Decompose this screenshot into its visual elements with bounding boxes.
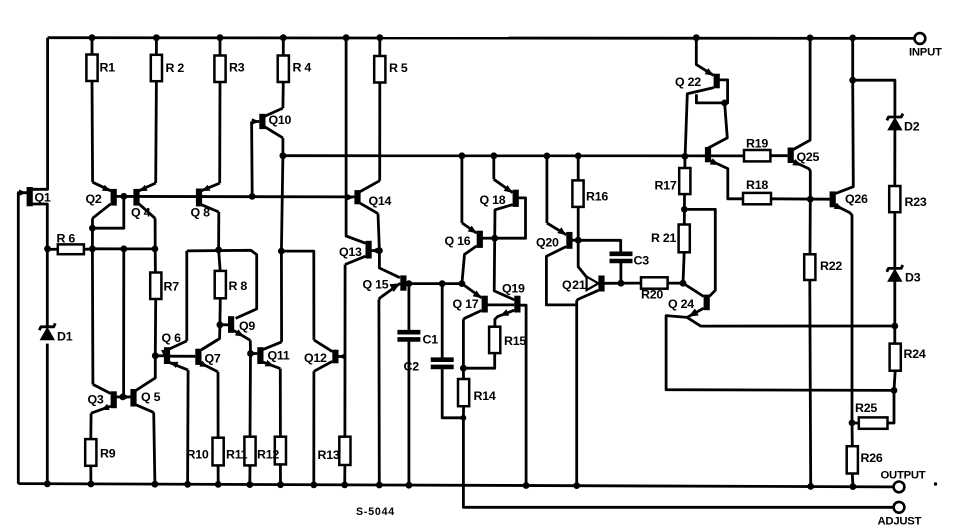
resistor R4 <box>278 56 289 83</box>
transistor Q18 <box>494 179 519 238</box>
label R17 <box>655 179 677 193</box>
svg-text:R20: R20 <box>641 288 663 302</box>
transistor Q13 <box>345 241 379 265</box>
node Q16-Q18 junction dot <box>491 235 498 242</box>
wire bias bus y249 <box>92 247 154 250</box>
svg-text:R26: R26 <box>861 451 883 465</box>
svg-text:Q 21: Q 21 <box>562 278 586 292</box>
resistor R7 <box>150 273 161 300</box>
label R1 <box>100 61 116 75</box>
resistor R18 <box>743 193 771 204</box>
wire R2 top stub <box>155 38 158 55</box>
wire R6 right stub <box>84 248 93 251</box>
svg-text:R 4: R 4 <box>293 61 312 75</box>
transistor Q12 <box>314 340 346 371</box>
wire Q6 upper lead to bus y250 <box>185 251 188 341</box>
label R19 <box>746 137 768 151</box>
wire Q4 emitter down to R7 node <box>154 218 157 249</box>
wire Q6 node to Q5 collector <box>136 356 155 391</box>
svg-text:Q 18: Q 18 <box>480 193 506 207</box>
svg-text:Q10: Q10 <box>269 113 292 127</box>
node Q13 top rail dot <box>343 34 350 41</box>
wire input column x852 <box>851 38 854 80</box>
resistor R14 <box>458 379 469 406</box>
transistor Q23 <box>705 147 743 199</box>
wire C3 top to R16 node <box>578 240 621 251</box>
label OUTPUT <box>881 470 926 482</box>
wire Q12 emitter to output rail <box>312 371 315 485</box>
label Q15 <box>363 278 389 292</box>
resistor R13 <box>339 437 350 465</box>
wire Q11 emitter to R12 <box>279 369 282 437</box>
node Q2 junction dot at y228 <box>89 225 96 232</box>
resistor R20 <box>641 277 668 288</box>
transistor Q15 <box>379 275 407 299</box>
wire D2 branch <box>853 80 895 116</box>
node bias bus dot B <box>120 245 127 252</box>
svg-text:C3: C3 <box>634 254 650 268</box>
wire D1 anode to output rail <box>46 344 49 484</box>
wire Q16 base stub <box>482 237 494 240</box>
wire mid rail y156 <box>283 154 744 157</box>
label Q5 <box>141 390 161 404</box>
wire Q3 emitter to R9 <box>89 413 92 439</box>
svg-text:R10: R10 <box>187 448 209 462</box>
label R21 <box>651 231 677 245</box>
wire R17 node to Q24 right <box>684 209 715 296</box>
label Q4 <box>131 206 151 220</box>
wire R14 top stub <box>462 368 465 379</box>
transistor Q1 <box>19 187 33 206</box>
node branch dot x281 y251 <box>278 248 285 255</box>
svg-text:R19: R19 <box>746 137 768 151</box>
label Q18 <box>480 193 506 207</box>
wire R26 to output rail <box>851 474 854 487</box>
label R18 <box>746 178 768 192</box>
capacitor C3 <box>610 254 633 261</box>
transistor Q10 <box>252 108 283 138</box>
label R11 <box>226 448 248 462</box>
label R10 <box>187 448 209 462</box>
node base rail Q10 tap dot <box>249 193 256 200</box>
wire R8 bottom to Q9 base node <box>218 298 221 325</box>
label R6 <box>57 232 76 246</box>
svg-text:Q14: Q14 <box>369 194 392 208</box>
node Q10 emitter rail dot <box>280 152 287 159</box>
wire R14 bottom stub <box>462 406 465 418</box>
node stray mark <box>934 482 937 485</box>
wire R17 top stub <box>684 156 687 168</box>
label R20 <box>641 288 663 302</box>
node R12 output rail dot <box>277 481 284 488</box>
capacitor C2 <box>431 360 454 367</box>
node R24 junction dot <box>891 387 898 394</box>
wire R6 left stub <box>47 248 58 251</box>
wire D3 to R24 <box>893 281 896 344</box>
node Q24 collector junction dot <box>680 280 687 287</box>
svg-text:R15: R15 <box>504 334 526 348</box>
label Q2 <box>86 192 102 206</box>
wire R15 bottom loop <box>463 353 494 368</box>
transistor Q26 <box>830 191 852 423</box>
wire Q6 base stub <box>155 354 164 357</box>
wire Q18 collector drop to Q19 <box>494 238 514 300</box>
label Q26 <box>845 192 868 206</box>
label Q14 <box>369 194 392 208</box>
transistor Q17 <box>462 284 488 369</box>
wire R23 to D3 <box>893 212 896 267</box>
label R5 <box>389 61 408 75</box>
wire R4 top stub <box>282 38 285 56</box>
node R13 output rail dot <box>341 482 348 489</box>
svg-text:R17: R17 <box>655 179 677 193</box>
wire R22 to output rail <box>808 280 812 486</box>
wire R20 to Q24 node <box>668 282 683 285</box>
transistor Q14 <box>347 181 380 214</box>
resistor R8 <box>215 271 226 298</box>
svg-text:Q3: Q3 <box>88 393 104 407</box>
wire Q15 base bus <box>406 282 462 285</box>
svg-text:Q20: Q20 <box>536 236 559 250</box>
svg-text:Q2: Q2 <box>86 192 102 206</box>
node Q1 gate-rail junction dot <box>44 480 51 487</box>
wire x852 to Q26 collector <box>835 80 853 193</box>
svg-text:R25: R25 <box>855 401 877 415</box>
wire base rail y196 <box>113 195 354 198</box>
svg-text:D3: D3 <box>905 271 921 285</box>
label Q11 <box>268 349 290 363</box>
wire Q14 emitter to Q13 base node <box>378 214 379 251</box>
svg-text:R 6: R 6 <box>57 232 76 246</box>
wire Q21 base bus <box>604 282 641 285</box>
resistor R25 <box>859 417 888 428</box>
node input top rail dot <box>849 35 856 42</box>
label R23 <box>905 195 927 209</box>
svg-text:R 21: R 21 <box>651 231 677 245</box>
wire Q1 drain to top rail <box>32 38 48 190</box>
wire R12 to output rail <box>279 464 282 484</box>
resistor R21 <box>679 225 690 253</box>
label Q21 <box>562 278 586 292</box>
node R1 top rail dot <box>89 34 96 41</box>
svg-text:R1: R1 <box>100 61 116 75</box>
transistor Q3 <box>91 384 117 413</box>
wire Q3 base stub <box>116 395 123 398</box>
label D1 <box>57 330 73 344</box>
svg-text:Q1: Q1 <box>35 191 51 205</box>
node C2 adjust tap dot <box>461 415 467 421</box>
transistor Q16 <box>462 223 483 284</box>
wire Q6 lower lead to output rail <box>186 370 189 484</box>
resistor R3 <box>214 56 225 83</box>
wire Q5 base stub <box>123 395 131 398</box>
node Q22 loop dot <box>721 100 728 107</box>
wire R21 bottom stub <box>683 252 684 283</box>
node bus y250 dot at R8 <box>215 247 222 254</box>
label INPUT <box>909 47 942 59</box>
wire Q25 node to R22 <box>809 199 812 254</box>
node ADJUST terminal <box>894 502 905 513</box>
label R4 <box>293 61 312 75</box>
resistor R12 <box>275 437 286 465</box>
wire R2 to Q4 collector <box>154 81 157 183</box>
node Q13 base junction dot <box>376 247 383 254</box>
node R26 output rail dot <box>850 483 857 490</box>
transistor Q8 <box>196 183 220 212</box>
svg-text:Q19: Q19 <box>502 282 525 296</box>
svg-text:Q13: Q13 <box>339 245 362 259</box>
wire bus y250 to Q9 collector <box>187 250 257 318</box>
label Q19 <box>502 282 525 296</box>
node Q18 mid-rail dot <box>490 152 497 159</box>
wire R5 top stub <box>378 38 381 56</box>
wire R24 to R25 <box>888 371 896 423</box>
node Q6 base junction dot <box>152 352 159 359</box>
label C2 <box>404 360 420 374</box>
node R9 output rail dot <box>88 481 95 488</box>
wire Q10 emitter column x282 <box>281 138 283 342</box>
wire Q17-Q19 base link <box>487 303 514 306</box>
wire Q3-Q5 base drop <box>122 249 125 397</box>
transistor Q4 <box>133 183 155 218</box>
wire R3 to Q8 emitter <box>218 82 221 183</box>
svg-text:Q11: Q11 <box>268 349 290 363</box>
wire R7 to Q6 base node <box>154 299 157 356</box>
label Q9 <box>239 319 255 333</box>
node R16 bottom junction dot <box>575 237 582 244</box>
svg-text:Q 24: Q 24 <box>668 297 694 311</box>
transistor Q21 <box>577 276 605 486</box>
transistor Q9 <box>228 316 250 340</box>
svg-text:R3: R3 <box>229 61 245 75</box>
svg-text:Q 16: Q 16 <box>445 234 471 248</box>
svg-text:R 8: R 8 <box>229 279 248 293</box>
resistor R22 <box>804 254 815 280</box>
resistor R15 <box>489 327 500 353</box>
transistor Q2 <box>93 182 117 218</box>
label R26 <box>861 451 883 465</box>
label S-5044 <box>356 506 395 518</box>
label Q17 <box>453 297 479 311</box>
resistor R10 <box>213 438 224 466</box>
svg-text:R18: R18 <box>746 178 768 192</box>
node R10 output rail dot <box>215 481 222 488</box>
node R3 top rail dot <box>217 34 224 41</box>
svg-text:C1: C1 <box>423 333 439 347</box>
node D2 branch dot <box>849 77 856 84</box>
wire Q1 gate rail down left edge <box>18 193 27 484</box>
wire Q16 emitter riser <box>460 156 463 223</box>
label C1 <box>423 333 439 347</box>
wire Q26 emitter to R26 <box>851 423 854 446</box>
node R5 top rail dot <box>376 34 383 41</box>
diode D2 <box>887 114 903 131</box>
svg-text:Q26: Q26 <box>845 192 868 206</box>
svg-text:Q 17: Q 17 <box>453 297 479 311</box>
node Q21 output rail dot <box>573 482 580 489</box>
wire Q24 emitter to y390 line <box>666 316 894 391</box>
label R24 <box>904 347 926 361</box>
wire R1 to Q2 emitter <box>91 81 94 182</box>
node Q6 output rail dot <box>184 481 191 488</box>
svg-text:Q9: Q9 <box>239 319 255 333</box>
diode D3 <box>887 265 903 282</box>
resistor R16 <box>572 180 583 207</box>
wire Q18 emitter riser <box>492 156 495 180</box>
wire Q20 emitter riser <box>546 156 549 223</box>
node Q12 output rail dot <box>310 481 317 488</box>
node bias bus dot C <box>152 246 159 253</box>
wire Q22 loop to Q23 collector <box>707 103 727 149</box>
wire C1 top stem <box>407 284 410 330</box>
svg-text:R11: R11 <box>226 448 248 462</box>
resistor R9 <box>85 439 96 466</box>
node Q22 top rail dot <box>693 34 700 41</box>
wire R11 to output rail <box>248 465 251 484</box>
wire top supply rail <box>48 36 915 40</box>
node R22 output rail dot <box>807 483 814 490</box>
node R2 top rail dot <box>153 34 160 41</box>
node Q3-Q5 base junction dot <box>119 394 126 401</box>
wire Q7 emitter to R10 <box>217 372 220 438</box>
wire branch to Q12 collector <box>281 251 314 340</box>
label R25 <box>855 401 877 415</box>
wire R9 to output rail <box>89 466 92 484</box>
wire top rail to Q13 collector <box>346 38 365 244</box>
node C1 output rail dot <box>406 482 413 489</box>
resistor R24 <box>890 344 901 371</box>
node INPUT terminal <box>915 33 926 44</box>
wire R1 top stub <box>91 38 94 55</box>
wire R17-R21 link <box>683 194 686 224</box>
wire Q5 emitter to output rail <box>154 412 155 484</box>
resistor R26 <box>847 446 858 473</box>
svg-text:Q 8: Q 8 <box>191 206 211 220</box>
svg-text:Q 22: Q 22 <box>675 75 701 89</box>
wire Q13 base node to Q15 collector <box>379 251 400 278</box>
svg-text:R9: R9 <box>100 447 116 461</box>
svg-text:R23: R23 <box>905 195 927 209</box>
wire R7 top stub <box>154 249 157 273</box>
wire Q8 collector down <box>217 212 220 250</box>
wire Q7 collector riser <box>202 325 220 350</box>
wire Q6-Q7 base link <box>167 355 195 358</box>
resistor R6 <box>58 244 84 254</box>
label Q10 <box>269 113 292 127</box>
node Q25 top rail dot <box>807 35 814 42</box>
svg-text:Q 15: Q 15 <box>363 278 389 292</box>
resistor R1 <box>86 55 97 82</box>
node Q16 mid-rail dot <box>459 152 466 159</box>
svg-text:Q 5: Q 5 <box>141 390 161 404</box>
label D3 <box>905 271 921 285</box>
wire R10 to output rail <box>217 465 220 484</box>
wire Q1 source column to D1 <box>32 204 47 326</box>
svg-text:R16: R16 <box>586 190 608 204</box>
label C3 <box>634 254 650 268</box>
label Q7 <box>205 352 221 366</box>
transistor Q5 <box>123 389 154 412</box>
resistor R11 <box>244 437 255 466</box>
wire R4 to Q10 collector <box>281 82 284 108</box>
wire base branch from rail to y228 <box>92 196 123 228</box>
label Q12 <box>304 351 327 365</box>
node R17 mid-rail dot <box>682 153 689 160</box>
node Q15 output rail dot <box>376 482 383 489</box>
node Q16-Q17 node dot <box>459 280 466 287</box>
wire D2 to R23 <box>893 129 896 186</box>
label Q16 <box>445 234 471 248</box>
wire Q9 base stub <box>220 323 228 326</box>
wire Q9 emitter to Q11 base <box>249 340 252 353</box>
label R7 <box>164 280 180 294</box>
capacitor C1 <box>397 332 420 339</box>
node R14 top junction dot <box>460 365 467 372</box>
label Q20 <box>536 236 559 250</box>
svg-text:S-5044: S-5044 <box>356 506 395 518</box>
wire Q19 base to output rail <box>520 305 526 485</box>
wire Q22 base loop <box>696 80 727 103</box>
wire Q10 base drop to base rail <box>252 122 260 197</box>
wire adjust rail <box>463 418 893 508</box>
wire C2 bottom stem <box>442 369 463 418</box>
wire C2 top stem <box>441 284 444 358</box>
wire Q20 base stub <box>572 239 578 242</box>
svg-text:R22: R22 <box>820 259 842 273</box>
label R22 <box>820 259 842 273</box>
node R11 output rail dot <box>246 481 253 488</box>
wire R13 to output rail <box>343 465 346 485</box>
node OUTPUT terminal <box>894 482 905 493</box>
wire C3 bottom stem <box>620 263 623 283</box>
label Q1 <box>35 191 51 205</box>
svg-text:Q 4: Q 4 <box>131 206 151 220</box>
wire top rail to Q22 emitter <box>696 38 713 76</box>
label Q25 <box>797 150 820 164</box>
node Q9 base junction dot <box>217 321 224 328</box>
svg-text:C2: C2 <box>404 360 420 374</box>
wire Q18 base loop <box>495 198 526 238</box>
svg-text:R7: R7 <box>164 280 180 294</box>
node C3 bottom tap dot <box>618 280 625 287</box>
svg-text:R 5: R 5 <box>389 61 408 75</box>
resistor R23 <box>889 186 900 212</box>
node C2 tap dot <box>439 280 446 287</box>
label R16 <box>586 190 608 204</box>
svg-text:D1: D1 <box>57 330 73 344</box>
node R25 left junction dot <box>849 420 856 427</box>
node Q5 output rail dot <box>152 481 159 488</box>
wire R18 to Q26 base <box>771 197 830 200</box>
transistor Q11 <box>257 342 281 369</box>
label Q8 <box>191 206 211 220</box>
label R9 <box>100 447 116 461</box>
svg-text:R12: R12 <box>257 448 279 462</box>
wire Q13 emitter column to R13 <box>343 265 346 437</box>
svg-text:R24: R24 <box>904 347 926 361</box>
diode D1 <box>39 323 55 340</box>
node base rail tap dot <box>120 193 127 200</box>
node C1 tap dot <box>406 280 413 287</box>
wire Q3 collector riser <box>91 249 94 385</box>
wire R3 top stub <box>219 38 222 56</box>
label R14 <box>474 389 496 403</box>
resistor R17 <box>679 168 690 194</box>
wire Q15 emitter to output rail <box>377 300 380 485</box>
wire R8 top stub <box>219 250 221 271</box>
node R4 top rail dot <box>280 34 287 41</box>
transistor Q7 <box>195 339 219 372</box>
